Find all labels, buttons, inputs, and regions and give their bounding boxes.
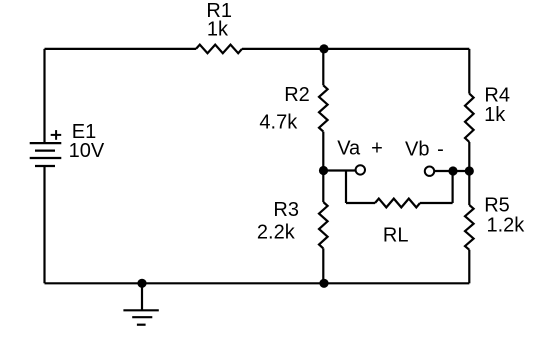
terminal Va (open circle) [356, 165, 365, 174]
node junction dot bottom middle [319, 279, 328, 288]
svg-text:RL: RL [383, 224, 409, 246]
svg-text:1k: 1k [484, 104, 506, 126]
svg-text:1.2k: 1.2k [487, 214, 526, 236]
wire Va branch down to RL [345, 171, 347, 204]
node junction dot RL right [448, 166, 457, 175]
svg-text:2.2k: 2.2k [257, 221, 296, 243]
resistor R3 [319, 202, 328, 248]
svg-text:1k: 1k [207, 18, 229, 40]
resistor R2 [319, 85, 328, 131]
svg-text:R5: R5 [484, 195, 510, 217]
resistor R1 [196, 45, 242, 54]
wire right rail upper [468, 49, 470, 94]
wire left rail upper [43, 49, 45, 143]
battery E1 [30, 143, 62, 166]
node junction dot top middle [319, 44, 328, 53]
terminal Vb (open circle) [425, 167, 434, 176]
wire top rail left segment [45, 48, 197, 50]
svg-text:R2: R2 [284, 84, 310, 106]
resistor RL [375, 199, 420, 208]
wire RL right lead [420, 202, 453, 204]
svg-text:4.7k: 4.7k [259, 111, 298, 133]
wire Vb terminal to right rail [434, 170, 469, 172]
wire RL right leg up [452, 171, 454, 203]
resistor R4 [465, 94, 474, 142]
svg-text:-: - [437, 139, 444, 161]
wire RL left lead [346, 202, 375, 204]
wire top rail right segment [242, 48, 469, 50]
svg-text:R3: R3 [273, 199, 299, 221]
wire node A to Va terminal [323, 169, 355, 171]
wire right rail mid [468, 142, 470, 205]
wire right rail lower [468, 250, 470, 283]
node junction dot ground [137, 279, 146, 288]
node A junction dot (R2/R3/Va) [319, 166, 328, 175]
battery plus sign [51, 130, 62, 140]
wire ground stub [141, 283, 143, 310]
node B junction dot (R4/R5/Vb) [465, 166, 474, 175]
resistor R5 [465, 205, 474, 250]
wire middle branch mid [322, 132, 324, 202]
ground [123, 310, 158, 324]
svg-text:10V: 10V [69, 140, 105, 162]
wire middle branch upper [322, 49, 324, 85]
wire bottom rail [45, 282, 470, 284]
svg-text:Vb: Vb [405, 139, 429, 161]
svg-text:Va: Va [337, 138, 361, 160]
svg-text:+: + [371, 138, 383, 160]
wire middle branch lower [322, 248, 324, 283]
wire left rail lower [43, 166, 45, 283]
